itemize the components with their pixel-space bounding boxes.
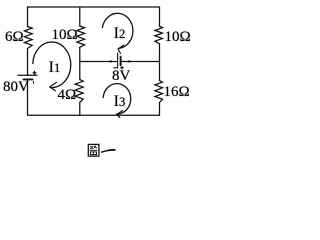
wire top	[28, 6, 160, 8]
label 10 ohm middle	[52, 28, 78, 43]
battery 80V minus tick	[32, 81, 34, 83]
battery 80V plus mark	[33, 72, 36, 75]
wire middle horizontal right of battery	[121, 61, 160, 63]
junction dot left of 8V battery	[110, 60, 112, 62]
mesh current I1 arc	[33, 42, 71, 88]
label 10 ohm right	[165, 30, 191, 45]
junction dot right of 8V battery	[128, 60, 130, 62]
wire middle branch top segment	[79, 7, 81, 26]
battery 8V minus mark	[114, 67, 118, 69]
battery 80V long plate	[18, 74, 37, 76]
label 4 ohm	[58, 88, 77, 103]
resistor R 10ohm middle	[77, 26, 85, 47]
resistor R 10ohm right	[155, 26, 163, 44]
battery 8V plus mark	[121, 66, 124, 69]
mesh current I3 arrowhead	[117, 111, 123, 118]
label current I1	[49, 60, 61, 76]
wire bottom	[28, 114, 160, 116]
wire left top segment	[27, 7, 29, 27]
battery 8V long plate	[117, 53, 119, 68]
wire middle horizontal left of battery	[80, 61, 118, 63]
label 16 ohm	[164, 85, 190, 100]
battery 80V short plate	[24, 78, 33, 80]
mesh current I3 arc	[103, 84, 131, 114]
label 8V	[112, 69, 130, 84]
resistor R 4ohm	[75, 80, 83, 103]
battery 8V short plate	[120, 57, 122, 66]
label 80V	[3, 80, 29, 95]
wire left bottom segment	[27, 80, 29, 115]
wire right bottom segment	[159, 103, 161, 116]
mesh current I1 arrowhead	[50, 82, 57, 90]
label current I3	[114, 94, 126, 110]
mesh current I2 arrowhead	[118, 45, 124, 53]
label 6 ohm	[5, 30, 24, 45]
wire middle branch bottom segment	[79, 102, 81, 115]
wire right mid segment	[159, 44, 161, 81]
label current I2	[114, 26, 126, 42]
resistor R 16ohm	[155, 81, 163, 103]
wire middle branch mid segment	[79, 47, 81, 79]
caption glyph yi (one)	[101, 149, 116, 153]
wire right top segment	[159, 7, 161, 26]
mesh current I2 arc	[102, 13, 133, 48]
caption glyph tu (figure)	[88, 144, 99, 156]
wire left mid segment	[27, 49, 29, 75]
resistor R 6ohm	[24, 27, 32, 49]
